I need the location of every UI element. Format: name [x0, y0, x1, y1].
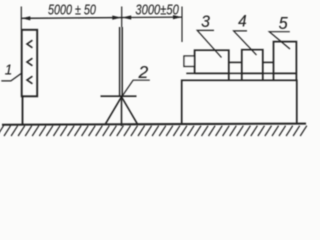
arrowhead middle pointing left	[122, 15, 131, 19]
small square on box 3 left	[184, 56, 195, 66]
box 5	[274, 42, 297, 81]
connector bar box4-box5	[263, 61, 274, 63]
tripod right leg	[122, 97, 138, 125]
dimension line 3000	[122, 16, 182, 18]
box 4 bottom	[242, 72, 263, 74]
ground	[2, 124, 306, 125]
svg-text:5: 5	[279, 13, 289, 33]
leader line for label 2	[121, 80, 149, 97]
leader line for label 4	[234, 31, 257, 55]
platform (table)	[182, 80, 297, 124]
box 4	[242, 50, 263, 81]
svg-text:2: 2	[138, 62, 149, 82]
leader line for label 1	[1, 73, 21, 81]
dimension extension line middle	[121, 7, 123, 28]
svg-text:4: 4	[238, 13, 247, 31]
leader line for label 5	[269, 32, 290, 49]
arrowhead middle pointing right	[112, 16, 121, 20]
box 3 bottom	[195, 72, 229, 74]
item 1: screen rectangle	[22, 30, 38, 97]
box 5 bottom	[274, 72, 297, 74]
chevron 3	[27, 76, 32, 84]
arrowhead left (points left)	[22, 16, 31, 20]
shelf line A	[186, 72, 296, 74]
dimension extension line right	[181, 7, 183, 43]
connector bar box3-box4	[229, 61, 242, 63]
item 2: pole (double line)	[119, 27, 121, 96]
svg-text:3: 3	[201, 13, 210, 32]
chevron 2	[27, 58, 32, 66]
tripod left leg	[105, 97, 122, 125]
svg-text:1: 1	[5, 61, 13, 78]
tripod crossbar	[101, 95, 137, 97]
item 1 support post	[22, 96, 24, 124]
dimension extension line left	[20, 7, 22, 30]
chevron 1	[27, 40, 32, 48]
arrowhead right (points right)	[173, 15, 182, 19]
tripod middle leg	[121, 96, 123, 126]
leader line for label 3	[197, 30, 221, 57]
svg-text:3000±50: 3000±50	[135, 1, 179, 18]
svg-text:5000 ± 50: 5000 ± 50	[48, 1, 96, 18]
ground hatching	[0, 126, 307, 136]
box 3	[195, 50, 229, 80]
dimension line 5000	[21, 17, 121, 20]
